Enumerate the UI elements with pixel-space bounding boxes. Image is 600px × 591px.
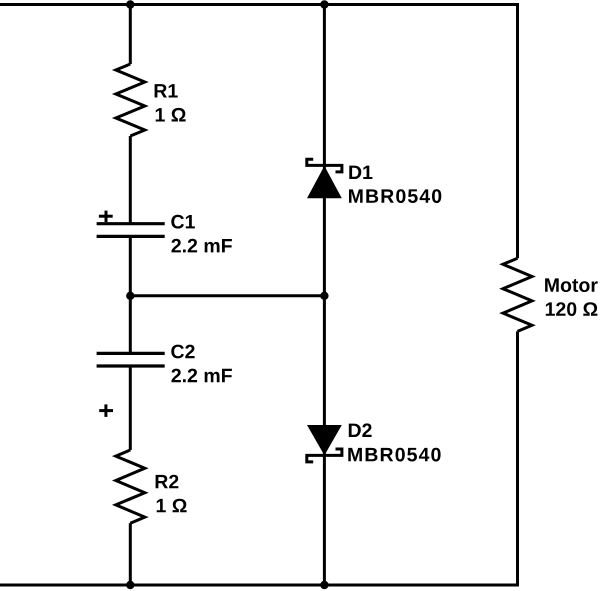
- junction node mid middle: [320, 292, 328, 300]
- wire R1 to C1: [129, 136, 132, 224]
- value label C1 2.2 mF: [172, 239, 232, 253]
- label D2: [349, 423, 372, 437]
- capacitor C1: [97, 224, 165, 237]
- wire right rail lower segment and bottom rail: [0, 331, 518, 585]
- wire C2 to R2: [129, 366, 132, 450]
- wire C1 to C2 through mid node: [129, 236, 132, 353]
- wire middle rail: [323, 3, 326, 585]
- wire left rail top segment: [129, 3, 132, 64]
- value label D1 MBR0540: [349, 189, 441, 203]
- label R2: [156, 475, 179, 489]
- diode D2 schottky cathode bar: [307, 449, 342, 462]
- junction node bottom middle: [320, 581, 328, 589]
- junction node mid left: [126, 292, 134, 300]
- junction node bottom left: [126, 581, 134, 589]
- C2 polarity plus: [99, 404, 113, 417]
- wire top rail and right rail upper segment: [0, 5, 518, 259]
- label D1: [349, 166, 372, 179]
- diode D2 triangle: [307, 425, 342, 455]
- junction node top middle: [320, 0, 328, 8]
- value label R1 1 ohm: [156, 108, 186, 122]
- capacitor C2: [97, 353, 165, 366]
- wire R2 to bottom rail: [129, 523, 132, 585]
- label Motor: [545, 278, 598, 292]
- value label D2 MBR0540: [348, 448, 440, 462]
- value label R2 1 ohm: [157, 499, 187, 513]
- C1 polarity plus: [99, 211, 113, 223]
- value label Motor 120 ohm: [546, 302, 598, 316]
- label C2: [171, 345, 194, 359]
- diode D1 schottky cathode bar: [307, 159, 342, 172]
- diode D1 triangle: [307, 166, 342, 198]
- label C1: [171, 215, 195, 229]
- junction node top left: [126, 0, 134, 8]
- resistor R1: [116, 64, 145, 136]
- label R1: [155, 84, 178, 97]
- wire mid horizontal node link: [130, 294, 324, 297]
- resistor R2: [116, 450, 145, 523]
- motor resistor winding: [503, 258, 532, 331]
- value label C2 2.2 mF: [172, 369, 232, 383]
